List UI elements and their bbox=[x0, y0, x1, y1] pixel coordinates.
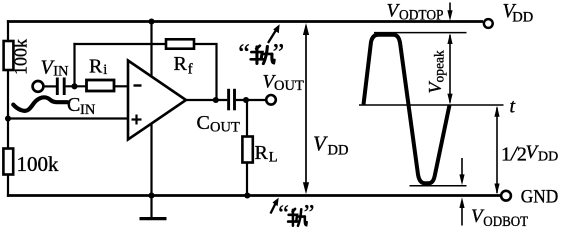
wire CIN to Ri bbox=[66, 85, 87, 87]
svg-text:i: i bbox=[103, 62, 107, 78]
resistor RL bbox=[242, 137, 252, 163]
wire feedback tap up bbox=[73, 43, 75, 86]
svg-text:ODBOT: ODBOT bbox=[483, 214, 528, 230]
wire supply vertical bbox=[150, 22, 152, 196]
dimension VODBOT arrows bbox=[461, 158, 463, 176]
dimension VODTOP arrow upper bbox=[449, 3, 451, 13]
wire top rail VDD bbox=[7, 20, 483, 23]
svg-text:DD: DD bbox=[512, 9, 533, 25]
wire VIN to CIN bbox=[44, 85, 56, 87]
pin plus bbox=[132, 118, 142, 120]
source sine symbol bbox=[13, 97, 67, 111]
wire RL to rail bbox=[246, 162, 248, 196]
resistor R1 100k top bbox=[4, 41, 14, 70]
svg-text:DD: DD bbox=[328, 143, 349, 159]
terminal VOUT bbox=[266, 95, 276, 105]
dimension half VDD double arrow bbox=[496, 108, 498, 194]
label rail top (Chinese gui with quotes) bbox=[238, 39, 284, 68]
dimension VDD middle double arrow bbox=[305, 26, 307, 191]
svg-text:100k: 100k bbox=[17, 152, 60, 176]
peak level line bbox=[374, 32, 467, 34]
wire noninverting input bbox=[8, 117, 129, 119]
node supply rail bottom bbox=[148, 192, 154, 198]
svg-text:“: “ bbox=[278, 201, 289, 227]
op-amp U1 bbox=[128, 61, 186, 140]
wire RL column bbox=[246, 100, 248, 137]
node divider mid bbox=[5, 115, 11, 121]
svg-text:f: f bbox=[188, 62, 193, 78]
ground bbox=[150, 196, 152, 218]
svg-text:R: R bbox=[89, 56, 103, 78]
terminal GND bbox=[501, 191, 511, 201]
terminal VDD top right bbox=[484, 19, 493, 28]
svg-text:V: V bbox=[313, 132, 328, 156]
arrow to bottom rail bbox=[271, 203, 277, 214]
svg-text:C: C bbox=[67, 94, 80, 116]
svg-text:OUT: OUT bbox=[210, 120, 240, 136]
capacitor COUT bbox=[227, 89, 230, 111]
svg-text:DD: DD bbox=[538, 150, 558, 165]
resistor Rf bbox=[166, 39, 194, 48]
wire to Rf bbox=[73, 43, 166, 45]
trough level line bbox=[410, 185, 467, 187]
svg-text:C: C bbox=[197, 112, 210, 134]
capacitor CIN bbox=[56, 78, 59, 96]
resistor Ri bbox=[87, 80, 115, 91]
dimension Vopeak double arrow bbox=[449, 35, 451, 103]
svg-text:t: t bbox=[510, 96, 516, 118]
svg-text:“: “ bbox=[238, 39, 250, 68]
node output/Rf bbox=[213, 97, 219, 103]
wire COUT to VOUT bbox=[236, 99, 266, 101]
svg-text:L: L bbox=[269, 150, 278, 166]
terminal VIN bbox=[33, 81, 44, 92]
wire bottom rail GND bbox=[7, 194, 501, 197]
svg-text:GND: GND bbox=[521, 188, 559, 208]
wire opamp output bbox=[185, 99, 227, 101]
svg-text:1/2: 1/2 bbox=[501, 142, 527, 166]
svg-text:100k: 100k bbox=[10, 39, 30, 75]
wire Rf to output bbox=[194, 44, 217, 100]
svg-text:R: R bbox=[174, 53, 188, 75]
resistor R2 100k bottom bbox=[3, 149, 13, 175]
svg-text:OUT: OUT bbox=[274, 78, 304, 94]
arrow to top rail bbox=[268, 29, 277, 44]
node CIN/Ri junction bbox=[71, 83, 77, 89]
node RL rail bbox=[244, 192, 250, 198]
t axis bbox=[359, 104, 504, 106]
svg-text:IN: IN bbox=[53, 64, 69, 80]
pin minus bbox=[134, 84, 142, 86]
svg-text:R: R bbox=[255, 142, 269, 164]
wire left rail bbox=[7, 20, 9, 197]
waveform bbox=[364, 35, 450, 184]
node top rail supply bbox=[148, 18, 154, 24]
svg-text:IN: IN bbox=[80, 102, 96, 118]
wire Ri to opamp bbox=[114, 85, 129, 87]
svg-text:ODTOP: ODTOP bbox=[399, 7, 444, 23]
node RL tap bbox=[243, 97, 249, 103]
label rail bottom bbox=[278, 201, 314, 227]
